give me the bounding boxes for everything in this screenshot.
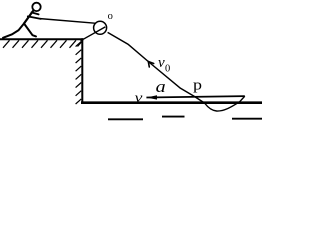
svg-text:p: p bbox=[193, 76, 202, 93]
svg-text:a: a bbox=[156, 77, 166, 95]
svg-text:o: o bbox=[108, 11, 113, 22]
